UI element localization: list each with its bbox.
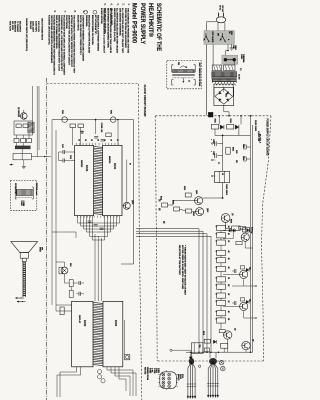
bundle B knot <box>209 358 217 365</box>
inset2 winding brackets <box>15 187 16 199</box>
svg-text:R131 1000: R131 1000 <box>254 120 256 131</box>
capacitor C202 <box>88 220 92 222</box>
svg-text:SPKR: SPKR <box>39 247 41 252</box>
svg-text:28: 28 <box>84 139 86 141</box>
IC101 clock chip <box>103 145 122 215</box>
inset2 hatched winding <box>16 189 32 195</box>
resistor R126 <box>106 133 111 137</box>
transistor Q4 <box>240 302 248 310</box>
resistor R3 <box>14 138 19 142</box>
svg-text:5.: 5. <box>103 3 107 5</box>
svg-text:(MALE): (MALE) <box>177 374 180 381</box>
transistor Q7 (chassis) <box>21 113 28 120</box>
misc value labels right chain <box>235 150 237 154</box>
wire: top components to IC101 <box>72 128 74 146</box>
svg-text:2200: 2200 <box>235 150 237 154</box>
svg-text:CIRCUIT BOARD PARTS: CIRCUIT BOARD PARTS <box>41 18 44 40</box>
connector P101 index ticks <box>158 374 160 376</box>
wire: segment feed <box>52 231 76 233</box>
resistor R121 below Q2 <box>236 241 242 244</box>
svg-text:R101: R101 <box>214 119 216 123</box>
wire bundle B (5 leads) <box>208 362 213 396</box>
wires left of lower IC <box>56 304 72 306</box>
transistor Q101 <box>195 197 203 205</box>
svg-text:P101 PLUG: P101 PLUG <box>8 21 10 31</box>
wire: cluster interconnect <box>64 274 66 283</box>
svg-text:INDICATES A POSITIVE VOLTAGE: INDICATES A POSITIVE VOLTAGE <box>88 15 91 54</box>
transformer T1 label <box>239 68 241 71</box>
transistor eyelets below hatch <box>98 370 102 374</box>
resistor R201 <box>70 124 76 128</box>
resistor R120 (horizontal) <box>239 227 246 230</box>
transistor Q103 right of ICs <box>123 202 130 209</box>
inset2 bottom text <box>20 201 24 207</box>
diode D107 <box>246 268 249 271</box>
wire: drop at 118 <box>117 120 119 145</box>
svg-text:Q5: Q5 <box>234 328 236 330</box>
svg-text:POINT.: POINT. <box>94 15 96 36</box>
resistor R104 <box>162 203 168 207</box>
net labels at board edge <box>158 199 160 202</box>
resistor R124 above rail <box>221 343 228 348</box>
svg-text:Q102: Q102 <box>206 208 208 212</box>
svg-text:WHERE MARKED. MEASUREMENTS MAD: WHERE MARKED. MEASUREMENTS MADE WITH CLO… <box>57 15 60 71</box>
wire: Q5/Q6 to bottom rail <box>227 339 229 352</box>
svg-text:BOARD GROUND.: BOARD GROUND. <box>100 8 103 24</box>
label: POWER SUPPLY CIRCUIT BOARD <box>265 119 268 156</box>
arrow marker left <box>10 164 14 166</box>
svg-text:POWER SUPPLY CIRCUIT BOARD: POWER SUPPLY CIRCUIT BOARD <box>265 119 268 156</box>
note: starred parts text <box>178 245 186 296</box>
notes paragraph 7 <box>55 15 66 76</box>
notes paragraph 12 with circled symbol <box>93 10 97 14</box>
diode D102 <box>235 125 238 129</box>
clock circuit board outline (dashed) <box>47 84 142 400</box>
svg-text:INDICATES A LETTERED WIRING: INDICATES A LETTERED WIRING <box>96 15 99 51</box>
svg-text:IC102: IC102 <box>85 165 87 172</box>
svg-text:R?: R? <box>128 163 130 165</box>
svg-text:CHASSIS PARTS LIST (SEE NOTE 9: CHASSIS PARTS LIST (SEE NOTE 9) <box>25 18 28 51</box>
wire: plug hot lead into switch <box>224 23 226 31</box>
notes paragraph 8 <box>65 15 76 73</box>
svg-text:C110 .05: C110 .05 <box>257 131 259 141</box>
test point arrows <box>211 143 213 145</box>
svg-text:COMPONENT NUMBERS 1-99 ARE CHA: COMPONENT NUMBERS 1-99 ARE CHASSIS <box>82 15 85 62</box>
wire: feed to R101/D101 <box>218 116 220 125</box>
wire: regulator output <box>222 183 224 198</box>
wire: bus 4 <box>136 236 211 352</box>
svg-text:DETAIL A-A: DETAIL A-A <box>35 183 38 196</box>
svg-text:Q1 2N2222: Q1 2N2222 <box>17 107 19 117</box>
capacitor C204 <box>100 227 104 229</box>
resistor R122 above Q3 <box>240 266 244 269</box>
resistor R101 <box>211 124 218 129</box>
svg-text:54-940: 54-940 <box>238 74 241 79</box>
resistor R206 <box>69 290 73 297</box>
svg-text:R108: R108 <box>229 219 231 223</box>
resistor stack values <box>227 226 229 229</box>
IC202 display (lower) <box>72 301 93 366</box>
notes paragraph 2 <box>118 8 124 53</box>
diode D108 <box>246 300 249 303</box>
svg-text:IC101 CLOCK: IC101 CLOCK <box>37 21 39 32</box>
wire: bus 3 <box>136 234 207 352</box>
svg-text:DISPLAY AT NORMAL BRIGHTNESS.: DISPLAY AT NORMAL BRIGHTNESS. <box>55 15 58 49</box>
svg-text:28: 28 <box>116 139 118 141</box>
wire: switch to primary (left) <box>212 44 214 65</box>
bridge rectifier BR1 diamond <box>215 89 233 105</box>
capacitor C104 <box>246 158 250 160</box>
bridge rectifier BR1 outer box <box>214 87 234 105</box>
AC plug P1 <box>218 13 220 17</box>
svg-text:U101 REG: U101 REG <box>225 184 227 196</box>
bridge diode D-B <box>226 91 228 94</box>
connector P101 body (pin end view) <box>160 372 177 389</box>
bridge diode D-A <box>219 91 221 94</box>
svg-text:+: + <box>210 139 212 140</box>
svg-text:NOT BE USED IN SOME SETS. THEY: NOT BE USED IN SOME SETS. THEY ARE <box>181 245 184 290</box>
label: viewed from pin end <box>144 367 148 380</box>
flat component box <box>13 153 31 159</box>
resistor R125 <box>204 339 210 343</box>
off-board arrow <box>190 353 192 357</box>
speaker lead arrows <box>15 297 24 299</box>
svg-text:28: 28 <box>90 139 92 141</box>
transformer T1 secondary hatched band <box>212 79 236 81</box>
svg-text:28: 28 <box>97 139 99 141</box>
svg-text:IC102 DISPL: IC102 DISPL <box>34 21 36 33</box>
wire bundle A (4 leads) <box>188 362 192 397</box>
svg-text:PIN END: PIN END <box>144 367 146 375</box>
speaker SP1 driver <box>20 252 28 258</box>
wire: filter rail <box>222 135 224 171</box>
wire: bus 1 <box>136 229 199 353</box>
svg-text:THIS SCHEMATIC SHOWS OPERATING: THIS SCHEMATIC SHOWS OPERATING VOLTAGES … <box>73 15 76 73</box>
capacitor C106 <box>101 139 105 141</box>
capacitor C107 left of IC102 <box>62 150 64 154</box>
svg-text:VOICE: VOICE <box>20 201 22 207</box>
svg-text:MICROFARADS UNLESS MARKED OTHE: MICROFARADS UNLESS MARKED OTHER- <box>106 8 109 48</box>
connector P101 labels <box>177 374 183 381</box>
inset2 side label <box>35 183 38 196</box>
svg-text:VOLTMETER. LINE VOLTAGE 120 VA: VOLTMETER. LINE VOLTAGE 120 VAC. <box>47 15 50 45</box>
legend list: chassis parts <box>8 21 20 33</box>
wire: bridge output to board <box>224 105 229 115</box>
svg-text:MARKED OTHERWISE (K=1,000).: MARKED OTHERWISE (K=1,000). <box>113 8 116 42</box>
svg-text:SCHEMATIC OF THE: SCHEMATIC OF THE <box>155 3 162 51</box>
svg-text:DESCRIPTION FOR AN EXPLANATION: DESCRIPTION FOR AN EXPLANATION OF CIRCUI… <box>67 15 70 66</box>
svg-text:SEC WINDING DETAIL: SEC WINDING DETAIL <box>198 63 201 87</box>
power supply circuit board outline (dashed) <box>155 115 271 117</box>
svg-text:PURPOSES OF TESTING AND ADJUST: PURPOSES OF TESTING AND ADJUSTMENT. <box>124 8 127 48</box>
svg-text:* THESE PARTS MAY VARY IN VALU: * THESE PARTS MAY VARY IN VALUE OR MAY <box>184 245 187 296</box>
capacitor C103 <box>246 146 250 148</box>
svg-text:C103: C103 <box>242 144 244 148</box>
fuse F1 label <box>240 54 245 64</box>
svg-text:ALL RESISTOR VALUES ARE IN OHM: ALL RESISTOR VALUES ARE IN OHMS UNLESS <box>115 8 118 53</box>
svg-text:R106: R106 <box>183 186 185 190</box>
svg-text:FUSE: FUSE <box>240 54 242 60</box>
resistor R106 <box>185 193 191 197</box>
svg-text:THIS SYMBOL INDICATES A CLOCK: THIS SYMBOL INDICATES A CLOCK CIRCUIT <box>103 8 106 54</box>
capacitor C201 (electrolytic) <box>81 130 83 134</box>
transformer secondary leads <box>213 84 215 96</box>
svg-text:DISPLAY: DISPLAY <box>78 315 81 324</box>
wire: rail to right side <box>121 120 134 264</box>
svg-text:IC101: IC101 <box>113 163 115 170</box>
svg-text:ARE MARKED OTHERWISE.: ARE MARKED OTHERWISE. <box>118 8 121 36</box>
crossing marker (circled) before lower IC <box>61 267 68 274</box>
wire: left feeds <box>51 120 53 305</box>
board part number <box>259 134 261 143</box>
wire: riser from enclosure <box>32 86 34 121</box>
capacitor C203 <box>94 224 98 226</box>
inset arc arrow <box>180 66 186 68</box>
notes paragraph 6 <box>47 15 55 75</box>
diode D101 <box>220 125 223 129</box>
capacitor C112 <box>233 301 235 305</box>
wire: hatch bus down <box>94 234 96 301</box>
speaker twisted pair cable <box>22 261 24 297</box>
svg-text:+: + <box>210 151 212 152</box>
wires below lower ICs <box>60 367 77 397</box>
svg-text:CLOCK CIRCUIT BOARD: CLOCK CIRCUIT BOARD <box>143 85 146 117</box>
svg-text:Q6: Q6 <box>252 339 254 341</box>
wire: Q103 collector feed <box>126 160 128 203</box>
label Q1 <box>231 213 233 216</box>
speaker label <box>39 247 43 252</box>
transformer T1 core <box>211 76 236 78</box>
wire: lower IC right lead <box>123 301 125 354</box>
resistor R103 <box>226 147 230 154</box>
svg-text:R102: R102 <box>229 119 231 123</box>
switch SW1 assembly (shaded) <box>204 31 234 45</box>
notes paragraph 11 <box>91 15 94 45</box>
fuse F101 (bead) <box>62 117 68 123</box>
resistor R105 <box>174 207 180 211</box>
svg-text:28: 28 <box>109 139 111 141</box>
wire: rail drop to IC <box>95 120 97 134</box>
inset2 top label <box>14 183 16 194</box>
legend heading: chassis parts <box>25 18 28 51</box>
svg-text:4.: 4. <box>109 3 113 5</box>
svg-text:R103: R103 <box>232 147 234 151</box>
wire: stack interconnect <box>220 231 222 233</box>
label: U101 <box>225 184 227 196</box>
inset2 dotted line <box>16 196 32 198</box>
pin eyelet F <box>221 366 226 371</box>
svg-text:CT: CT <box>188 80 190 82</box>
svg-text:3.: 3. <box>116 3 120 5</box>
svg-text:IC201: IC201 <box>114 320 116 327</box>
capacitor C205 <box>78 281 80 285</box>
notes paragraph 9 <box>76 15 84 62</box>
bridge diode D-D <box>226 99 228 102</box>
connector P101 pins <box>162 373 165 376</box>
svg-text:1.: 1. <box>127 3 131 5</box>
resistor R109 <box>243 228 250 233</box>
wire: left stub rail <box>58 152 60 161</box>
svg-text:TH1: TH1 <box>198 345 200 348</box>
switch SW1 labels <box>228 31 232 35</box>
svg-text:BOARD PARTS.: BOARD PARTS. <box>76 15 79 31</box>
wire: bundle B feeds <box>209 352 211 358</box>
svg-text:Q2: Q2 <box>250 231 252 233</box>
sub-circuit enclosure (left) <box>14 121 33 135</box>
chassis boundary (dash-dot) <box>46 78 48 400</box>
svg-text:Q101-Q107: Q101-Q107 <box>32 21 34 33</box>
diode D104 <box>229 229 232 232</box>
resistor R123 above Q4 <box>240 298 244 301</box>
svg-text:6.: 6. <box>53 11 57 13</box>
bridge label BR1 <box>225 93 227 97</box>
node: raw DC feed 1 <box>240 115 242 117</box>
svg-text:IC202: IC202 <box>83 320 85 327</box>
inset box: output transformer detail (dashed) <box>11 181 37 211</box>
svg-text:BR1: BR1 <box>225 93 227 97</box>
svg-text:POWER SUPPLY: POWER SUPPLY <box>139 3 146 45</box>
resistor R1 <box>16 124 21 127</box>
wire: sub-circuit verticals <box>15 135 17 138</box>
wire: chassis pair risers <box>36 86 38 157</box>
legend list: circuit board parts <box>29 21 39 33</box>
transistor Q5 <box>224 331 232 339</box>
wire: AC neutral rail down left side <box>206 25 208 116</box>
node: bridge positive on board edge <box>228 115 230 117</box>
wire: Q2 connections <box>223 230 233 238</box>
wire: Q1 emitter <box>226 222 232 228</box>
svg-text:R107: R107 <box>192 212 194 216</box>
switch SW1 section A <box>205 33 207 36</box>
bundle A knot <box>189 358 194 365</box>
wire: bus 2 <box>136 231 203 352</box>
choke bar (dark) <box>15 146 30 149</box>
svg-text:MM5316: MM5316 <box>108 156 110 163</box>
notes paragraph 1 <box>124 8 130 53</box>
interconnect hatch IC202-IC201 <box>93 302 103 303</box>
node: rail junction <box>95 119 97 121</box>
thermistor box <box>191 343 203 354</box>
notes paragraph 5 <box>100 8 106 54</box>
IC top pin labels <box>77 139 79 141</box>
resistor R107 <box>186 209 192 213</box>
resistor R204 <box>59 267 63 274</box>
thermal fuse F1 (shaded) <box>222 55 238 64</box>
svg-text:FUNCTIONS.: FUNCTIONS. <box>65 15 67 29</box>
label: CLOCK CIRCUIT BOARD <box>143 85 146 117</box>
svg-text:THIS SCHEMATIC IS PROVIDED ONL: THIS SCHEMATIC IS PROVIDED ONLY FOR THE <box>126 8 129 53</box>
inset hatched winding <box>173 69 195 72</box>
wire: switch to fuse <box>226 44 228 55</box>
IC pin stubs top <box>76 143 78 146</box>
resistor R126 <box>219 330 225 333</box>
svg-text:8.: 8. <box>73 11 77 13</box>
node: filter bus <box>222 135 224 137</box>
svg-text:28: 28 <box>103 139 105 141</box>
notes paragraph 10 with circled symbol <box>84 10 88 14</box>
wire: bottom distribution rail <box>186 351 253 353</box>
AC plug P1 label 120VAC 60Hz <box>219 5 224 13</box>
svg-text:HEATHKIT®: HEATHKIT® <box>147 3 155 37</box>
svg-text:D101-D105: D101-D105 <box>29 21 31 30</box>
wire: sub-circuit to clock board <box>31 156 51 158</box>
junction: fuse feed <box>227 50 229 52</box>
title: SCHEMATIC OF THE HEATHKIT POWER SUPPLY Model PS-9000 <box>131 3 162 51</box>
speaker SP1 horn <box>11 242 38 253</box>
resistor stack R110-R121 <box>217 225 226 230</box>
resistor R205 <box>69 280 73 287</box>
svg-text:ALL RESISTORS ARE 1/2 WATT UNL: ALL RESISTORS ARE 1/2 WATT UNLESS THEY <box>121 8 124 53</box>
IC bottom pin stubs <box>77 216 79 218</box>
svg-text:SPKR COIL: SPKR COIL <box>14 183 16 194</box>
component labels <box>100 123 102 133</box>
svg-text:ALL CAPACITOR VALUES LESS THAN: ALL CAPACITOR VALUES LESS THAN 1 ARE IN <box>109 8 112 53</box>
node: raw DC feed 2 <box>250 115 252 117</box>
svg-text:C105 .01: C105 .01 <box>100 123 102 133</box>
inset winding brackets <box>172 65 174 72</box>
svg-text:2.: 2. <box>121 3 125 5</box>
svg-text:OFF SLIDE: OFF SLIDE <box>211 31 213 43</box>
transistor Q3 <box>240 270 248 278</box>
svg-text:60 Hz: 60 Hz <box>219 5 221 10</box>
capacitor C105 <box>94 136 98 138</box>
svg-text:DRIVER: DRIVER <box>80 160 82 168</box>
wire: Q102 base network <box>180 209 186 211</box>
transistor Q1 (pass) <box>221 214 230 223</box>
wire: Q101 base network <box>168 201 195 205</box>
resistor R5 <box>27 138 32 142</box>
chassis ground below switch <box>231 44 233 48</box>
connector lug at board edge <box>208 112 213 117</box>
svg-text:PARTS. 100-199 ARE POWER SUPPL: PARTS. 100-199 ARE POWER SUPPLY <box>79 15 82 56</box>
interconnect hatch IC102-IC101 <box>94 146 103 147</box>
wire: bundle A feed <box>191 352 193 358</box>
transistor Q6 <box>242 341 250 349</box>
svg-text:CIRCUIT BOARD GROUND WITH A HI: CIRCUIT BOARD GROUND WITH A HIGH IMPEDAN… <box>50 15 53 63</box>
svg-text:APPEAR AT EACH POINT. REFER TO: APPEAR AT EACH POINT. REFER TO THE CIRCU… <box>70 15 73 68</box>
notes paragraph 3 <box>110 8 118 53</box>
resistor R202 <box>78 124 84 128</box>
regulator module U101 <box>215 171 230 182</box>
notes paragraph 4 <box>104 8 112 53</box>
resistor R127 <box>204 348 209 352</box>
connector pin-number column <box>149 368 159 374</box>
IC102 display driver <box>75 145 94 215</box>
diode D103 <box>213 340 216 344</box>
inset dotted secondary <box>173 77 195 79</box>
inset core lines <box>172 74 195 76</box>
capacitor C206 <box>78 292 80 296</box>
svg-text:READING.: READING. <box>85 15 88 27</box>
svg-text:F101: F101 <box>61 110 63 114</box>
node: bridge negative on board edge <box>218 115 220 117</box>
transistor Q102 <box>196 208 204 216</box>
svg-text:28: 28 <box>77 139 79 141</box>
wire: clock board top rail <box>52 119 134 121</box>
inset lower brackets <box>172 80 174 85</box>
svg-text:R125: R125 <box>202 331 204 335</box>
pin eyelet E <box>219 360 224 365</box>
svg-text:Model PS-9000: Model PS-9000 <box>131 3 138 43</box>
wire: Q101 collector to rail <box>203 197 223 199</box>
transformer T1 upper winding (hatched) <box>212 72 237 77</box>
ground label <box>232 45 237 51</box>
svg-text:SELECTED AT THE FACTORY.: SELECTED AT THE FACTORY. <box>178 245 181 276</box>
legend heading: circuit board parts <box>41 18 44 40</box>
inset labels <box>177 62 179 65</box>
switch SW1 section B <box>221 33 223 36</box>
svg-text:C107: C107 <box>61 144 63 148</box>
